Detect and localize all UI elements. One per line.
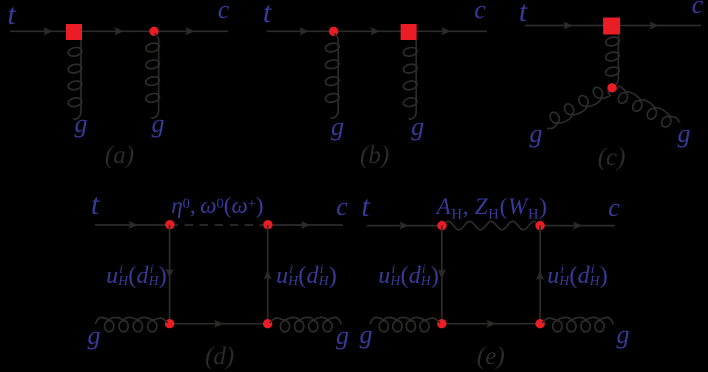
gluon loop 3 (b-left): [325, 76, 340, 87]
gluon loop 4 (a-left): [67, 97, 82, 108]
gluon loop 3 (a-right): [145, 76, 160, 87]
gluon loop 2 (e-left): [393, 321, 402, 332]
wire: (b) fermion line t to c: [267, 30, 488, 32]
arrow on t line (d): [129, 221, 138, 229]
caption (c): [598, 145, 626, 170]
gluon loop 2 (a-left): [67, 63, 82, 74]
label g (e-right): [617, 322, 630, 348]
arrow up on right line (d): [264, 270, 272, 279]
vertex: red dot bottom-left (d): [165, 319, 174, 328]
vertex: red square tcg coupling (c): [603, 18, 620, 35]
gluon loop 4 (b-right): [403, 97, 418, 108]
label c (b): [474, 0, 486, 23]
arrow on middle segment (b): [371, 27, 380, 35]
label c (e): [608, 195, 620, 221]
wire: (e) right heavy-quark line: [539, 226, 541, 324]
wire: (e) left heavy-quark line: [441, 226, 443, 324]
dashed scalar propagator eta0/omega0 (d): [170, 224, 268, 226]
label c (a): [218, 0, 230, 23]
gluon loop 4 (e-right): [553, 321, 562, 332]
gluon loop 4 (d-left): [148, 321, 157, 332]
arrow on t-side segment (b): [300, 27, 309, 35]
label t (b): [263, 0, 271, 28]
label u_H^i(d_H^i) right (e): [547, 264, 608, 288]
gluon loop 4 (b-left): [325, 92, 340, 103]
label c (c): [692, 0, 704, 18]
vertex: red dot bottom-right (e): [535, 319, 544, 328]
vertex: red dot bottom-right (d): [263, 319, 272, 328]
wire: (d) right heavy-quark line: [267, 225, 269, 324]
gluon loop 3 (d-left): [133, 321, 142, 332]
gluon loop 1 (a-right): [145, 42, 160, 53]
gluon loop 3 (b-right): [403, 80, 418, 91]
wire: (c) fermion line t to c: [525, 25, 701, 27]
gluon loop 2 (b-right): [403, 63, 418, 74]
gluon loop 2 (c-mid): [605, 51, 620, 62]
gluon loop 1 (c-downright): [616, 91, 629, 105]
label g (e-left): [360, 322, 373, 348]
wire: (e) outgoing c line: [540, 225, 615, 227]
caption (e): [477, 344, 505, 369]
gluon loop 2 (d-left): [119, 321, 128, 332]
gluon loop 4 (c-downleft): [548, 111, 561, 125]
arrow on c-side segment (b): [442, 27, 451, 35]
label g (b-left): [331, 114, 344, 140]
gluon loop 2 (b-left): [325, 59, 340, 70]
gluon loop 1 (c-mid): [605, 36, 620, 47]
wire: (d) left heavy-quark line: [169, 225, 171, 324]
wire: (e) bottom quark line: [442, 323, 540, 325]
vertex: red square tcg coupling (b): [401, 24, 417, 40]
vertex: red dot top-left (d): [165, 220, 174, 229]
label t (a): [7, 0, 15, 30]
arrow on t-side segment (c): [564, 22, 573, 30]
label u_H^i(d_H^i) right (d): [276, 264, 337, 288]
gluon loop 3 (e-right): [567, 321, 576, 332]
gluon loop 2 (c-downright): [631, 99, 644, 113]
gluon loop 1 (d-right): [323, 321, 332, 332]
gluon external bottom-right (d): [270, 317, 342, 324]
arrow up on right line (e): [536, 270, 544, 279]
arrow on bottom line (d): [214, 320, 223, 328]
arrow on c line (d): [301, 221, 310, 229]
gluon loop 1 (c-downleft): [591, 86, 604, 100]
gluon loop 3 (e-left): [406, 321, 415, 332]
label t (e): [361, 192, 369, 222]
vertex: red dot top-right (d): [263, 220, 272, 229]
wire: (d) incoming t line: [95, 224, 170, 226]
label g (a-left): [75, 111, 88, 137]
label t (c): [519, 0, 527, 27]
vertex: red dot QCD coupling (a): [149, 27, 158, 36]
caption (b): [360, 143, 389, 168]
wire: (d) bottom quark line: [170, 323, 268, 325]
gluon loop 3 (d-right): [295, 321, 304, 332]
gluon loop 3 (c-mid): [605, 66, 620, 77]
gluon loop 1 (e-right): [595, 321, 604, 332]
gluon down-right (c): [616, 86, 680, 122]
label t (d): [91, 190, 99, 220]
gluon loop 2 (a-right): [145, 59, 160, 70]
gluon external bottom-left (d): [95, 317, 167, 324]
vertex: red dot top-left (e): [437, 221, 446, 230]
gluon loop 3 (c-downleft): [563, 102, 576, 116]
vertex: red dot 3-gluon coupling (c): [607, 83, 616, 92]
wire: (e) incoming t line: [367, 225, 442, 227]
gluon from square down to 3-gluon vertex (c): [613, 34, 619, 88]
gluon loop 2 (d-right): [309, 321, 318, 332]
gluon loop 4 (e-left): [420, 321, 429, 332]
gluon loop 2 (e-right): [581, 321, 590, 332]
label u_H^i(d_H^i) left (d): [106, 264, 167, 288]
gluon loop 1 (a-left): [67, 46, 82, 57]
wavy gauge-boson propagator A_H/Z_H (e): [446, 221, 536, 229]
gluon loop 4 (d-right): [280, 321, 289, 332]
gluon loop 3 (c-downright): [645, 107, 658, 121]
label g (d-left): [88, 323, 101, 349]
label g (d-right): [336, 323, 349, 349]
arrow on c-side segment (a): [186, 27, 195, 35]
arrow on c-side segment (c): [650, 22, 659, 30]
gluon loop 1 (b-right): [403, 46, 418, 57]
gluon loop 4 (c-downright): [660, 115, 673, 129]
gluon loop 3 (a-left): [67, 80, 82, 91]
label u_H^i(d_H^i) left (e): [378, 264, 439, 288]
gluon loop 2 (c-downleft): [577, 94, 590, 108]
arrow down on left line (d): [166, 269, 174, 278]
gluon from dot vertex (a) right: [151, 34, 159, 119]
vertex: red square tcg coupling (a): [66, 24, 82, 40]
gluon down-left (c): [548, 91, 610, 130]
gluon from square vertex (a) left: [74, 40, 82, 119]
arrow on t line (e): [400, 222, 409, 230]
caption (d): [205, 344, 234, 369]
gluon external bottom-right (e): [542, 317, 613, 324]
label c (d): [336, 194, 348, 220]
label g (a-right): [152, 111, 165, 137]
arrow on middle segment (a): [115, 27, 124, 35]
vertex: red dot bottom-left (e): [437, 319, 446, 328]
vertex: red dot top-right (e): [535, 221, 544, 230]
label g (c-left): [530, 121, 543, 147]
gluon from square vertex (b) right: [409, 40, 417, 119]
label g (b-right): [411, 114, 424, 140]
wire: (d) outgoing c line: [268, 224, 343, 226]
arrow on bottom line (e): [487, 320, 496, 328]
vertex: red dot QCD coupling (b): [329, 27, 338, 36]
label A_H, Z_H(W_H) on boson propagator (e): [437, 195, 548, 218]
arrow down on left line (e): [438, 269, 446, 278]
gluon from dot vertex (b) left: [331, 34, 339, 119]
gluon loop 1 (e-left): [379, 321, 388, 332]
label g (c-right): [678, 121, 691, 147]
arrow on t-side segment (a): [44, 27, 53, 35]
label eta0, omega0(omega+) on scalar propagator (d): [171, 194, 263, 217]
gluon loop 1 (b-left): [325, 42, 340, 53]
arrow on c line (e): [573, 222, 582, 230]
wire: (a) fermion line t to c: [10, 30, 228, 32]
gluon external bottom-left (e): [370, 317, 440, 324]
caption (a): [105, 143, 134, 168]
gluon loop 4 (a-right): [145, 92, 160, 103]
gluon loop 1 (d-left): [105, 321, 114, 332]
